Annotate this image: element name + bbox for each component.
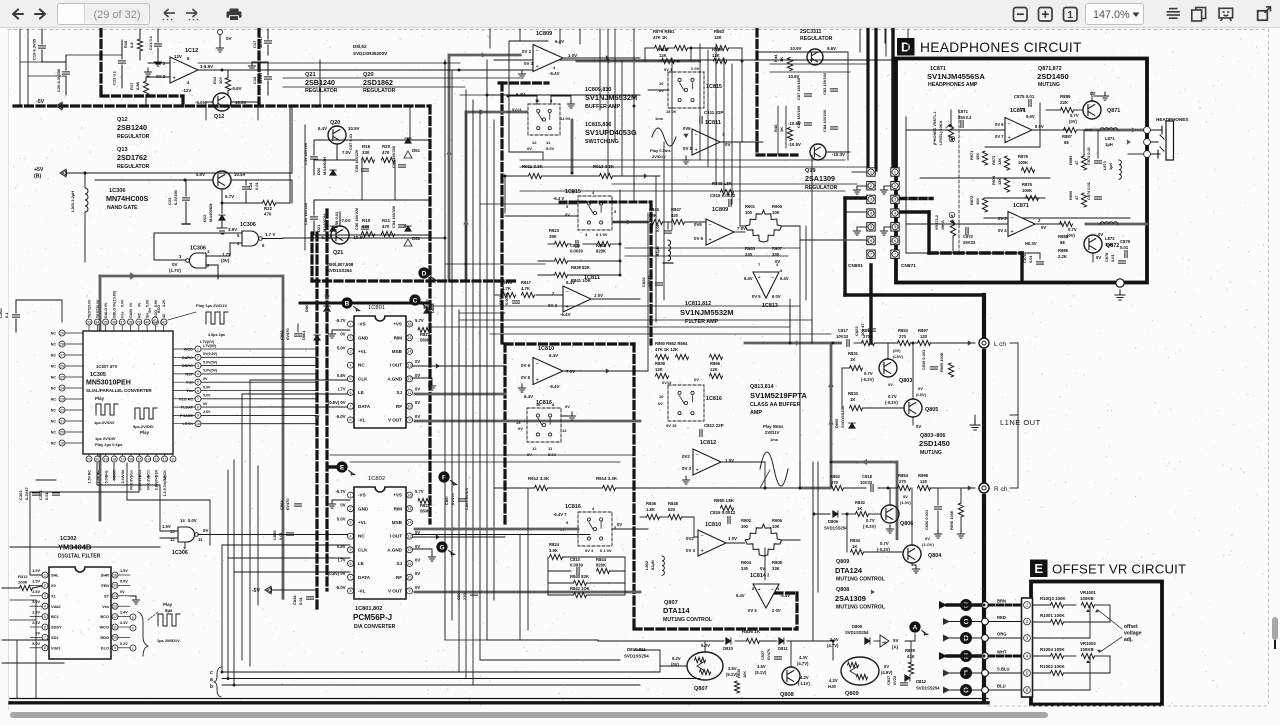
capacitor C817	[847, 340, 849, 347]
transistor Q805	[904, 399, 922, 417]
capacitor C818 value	[860, 480, 873, 485]
capacitor C87 label	[796, 77, 801, 100]
svg-text:10: 10	[659, 81, 664, 86]
svg-text:14: 14	[146, 457, 150, 461]
mesh r h2	[770, 71, 850, 73]
gate IC306c pin12	[170, 537, 175, 542]
wire y517c	[682, 517, 698, 537]
svg-text:68: 68	[1060, 240, 1065, 245]
resistor R917 label	[521, 280, 532, 285]
resistor R837	[662, 58, 675, 63]
wire cluster2 left2	[548, 570, 571, 572]
svg-text:SHL: SHL	[51, 573, 59, 578]
R859 R861 values	[653, 35, 667, 40]
IC305 play label	[95, 396, 105, 401]
svg-text:0V: 0V	[903, 494, 908, 499]
resistor R897 label	[918, 328, 929, 333]
offset wire label BLU	[997, 684, 1006, 689]
IC814 0V	[760, 566, 765, 571]
resistor R904 value	[741, 566, 749, 571]
svg-text:0V: 0V	[129, 302, 133, 307]
resistor R872	[982, 198, 987, 212]
svg-text:SJ: SJ	[396, 390, 402, 395]
svg-text:Play 2µs 0.6µs: Play 2µs 0.6µs	[95, 442, 123, 447]
mesh v g	[486, 60, 488, 640]
IC811b in3	[548, 303, 558, 308]
svg-text:2: 2	[1038, 218, 1041, 223]
resistor R866	[710, 373, 723, 378]
capacitor C802	[295, 324, 302, 336]
wire bridge2 out	[782, 539, 800, 541]
svg-text:1K: 1K	[857, 506, 862, 511]
mesh c v14	[663, 142, 665, 300]
capacitor C826 label	[641, 277, 646, 287]
arrow hatch A up	[446, 150, 452, 155]
gate IC306a label	[240, 222, 256, 228]
svg-text:-10.3V: -10.3V	[832, 152, 845, 157]
svg-text:15: 15	[113, 584, 117, 588]
resistor R20 value	[382, 150, 390, 155]
svg-text:2: 2	[197, 356, 199, 360]
diode D806	[833, 511, 838, 517]
transistor Q807 pair	[687, 652, 723, 680]
IC305 play per1	[94, 420, 115, 425]
svg-text:6 1 0V: 6 1 0V	[600, 548, 612, 553]
wire x292 up to -5V bus	[291, 106, 293, 173]
IC302 part line2	[58, 543, 92, 552]
op-amp IC809b	[706, 219, 734, 245]
svg-text:NC: NC	[51, 332, 57, 336]
zoom in	[1039, 8, 1053, 22]
resistor R911	[529, 173, 542, 178]
IC IC801 DAC body and pins	[348, 316, 413, 428]
svg-text:14: 14	[408, 521, 412, 525]
switch IC816c pin9	[566, 520, 569, 525]
svg-text:NC: NC	[51, 376, 57, 380]
svg-text:SVD1SS254: SVD1SS254	[840, 405, 845, 428]
svg-text:R853: R853	[898, 328, 909, 333]
svg-text:10V 47: 10V 47	[860, 323, 865, 336]
svg-text:Vss: Vss	[130, 470, 134, 476]
IC305 bottom pin row	[86, 454, 176, 462]
svg-text:6 1 0V: 6 1 0V	[596, 232, 608, 237]
svg-text:100: 100	[745, 210, 753, 215]
svg-text:(L0V): (L0V)	[916, 392, 927, 397]
gate IC306c pin13	[170, 529, 175, 534]
mesh h top1	[198, 69, 533, 71]
wire bridge2 vert	[764, 548, 766, 580]
svg-text:FEN: FEN	[101, 583, 109, 588]
Q13 part number line2	[117, 153, 147, 162]
switch IC815a pin13	[512, 107, 522, 112]
capacitor C801 label	[444, 497, 449, 505]
inductor L303	[85, 173, 88, 262]
dashed supply into x651	[560, 201, 651, 204]
capacitor C835 label	[272, 530, 277, 540]
Q805 v2	[916, 392, 927, 397]
capacitor C88 label	[796, 105, 801, 128]
svg-text:Play 1µs 2V/D1V: Play 1µs 2V/D1V	[196, 303, 227, 308]
wires IC305 to bus	[202, 349, 318, 424]
arrow hatch x831 up2	[828, 420, 834, 425]
capacitor C815 label	[710, 193, 736, 198]
svg-text:0V 15: 0V 15	[666, 423, 677, 428]
svg-text:(B): (B)	[34, 174, 41, 180]
svg-text:6.4V: 6.4V	[736, 593, 745, 598]
wire cluster y261L	[538, 260, 554, 262]
svg-text:SV1NJM4556SA: SV1NJM4556SA	[927, 72, 985, 81]
resistor R20	[382, 157, 395, 162]
IC305 right pin voltages	[203, 344, 218, 414]
svg-text:Q807: Q807	[694, 686, 708, 692]
switch IC815c box	[578, 196, 612, 230]
wire IC812 out	[721, 461, 765, 463]
svg-text:12K: 12K	[655, 367, 663, 372]
mesh c h9	[460, 312, 505, 314]
svg-text:0.7V: 0.7V	[1068, 227, 1077, 232]
diode D80x part2	[327, 268, 352, 273]
Q21 v left	[320, 235, 331, 240]
transistor Q803	[879, 359, 897, 377]
capacitor C56	[362, 227, 369, 229]
Q21 v right	[352, 235, 365, 240]
resistor R1004 label	[1040, 647, 1065, 652]
svg-text:0V: 0V	[1041, 225, 1046, 230]
svg-text:0V 5: 0V 5	[752, 294, 761, 299]
mesh right of IC802 b	[487, 640, 598, 641]
svg-text:1C305: 1C305	[90, 372, 106, 378]
svg-text:Play: Play	[140, 430, 150, 435]
svg-text:WCO: WCO	[184, 348, 193, 352]
svg-text:5.7V: 5.7V	[415, 318, 424, 323]
stub node F	[943, 670, 984, 677]
IC809810 title2	[585, 93, 637, 102]
svg-text:R898: R898	[918, 473, 929, 478]
svg-text:C302: C302	[0, 308, 3, 318]
capacitor C60	[311, 200, 318, 235]
resistor R852 value	[831, 480, 839, 485]
ground IC302 ST	[130, 596, 140, 604]
mesh right of IC802	[480, 659, 620, 661]
wire mute feed 1	[812, 462, 814, 488]
transistor Q803 designator	[899, 378, 912, 384]
switch IC815a v0	[527, 146, 532, 151]
svg-text:10.5V: 10.5V	[790, 46, 802, 51]
svg-text:L871: L871	[1105, 136, 1115, 141]
IC810a in6	[521, 363, 531, 368]
resistor R827 label	[420, 332, 431, 337]
IC813 in6	[772, 294, 781, 299]
resistor R16 label	[123, 40, 128, 48]
op-amp IC809b label	[712, 207, 728, 213]
IC871 title2	[927, 72, 985, 81]
wire bottom left long	[10, 665, 222, 667]
svg-text:0V: 0V	[415, 585, 420, 590]
svg-text:C57 0.01: C57 0.01	[348, 133, 353, 150]
svg-text:330: 330	[362, 150, 370, 155]
offset adj text3	[1124, 637, 1133, 643]
svg-text:REGULATOR: REGULATOR	[117, 134, 150, 140]
wire res vert x742	[741, 48, 743, 142]
svg-text:(4.9V): (4.9V)	[881, 670, 893, 675]
svg-text:Vss: Vss	[186, 389, 193, 393]
Q813814 title4	[750, 410, 762, 416]
svg-text:R903: R903	[745, 246, 756, 251]
junction dots cluster	[619, 243, 622, 277]
capacitor C874	[1095, 197, 1102, 199]
resistor R836 label	[742, 629, 761, 634]
svg-text:D80l,807,808: D80l,807,808	[327, 262, 354, 267]
svg-text:BC1: BC1	[51, 614, 60, 619]
wire cluster y275	[568, 274, 620, 276]
svg-text:11: 11	[546, 140, 551, 145]
resistor R853	[898, 340, 911, 345]
wire jack coil link	[1128, 153, 1143, 155]
capacitor C18 label	[252, 76, 257, 84]
wire Lch feed3	[875, 342, 898, 344]
svg-text:5µs.2V/DIV: 5µs.2V/DIV	[133, 424, 154, 429]
svg-text:SVD1SS254: SVD1SS254	[916, 686, 940, 691]
transistor Q13	[213, 171, 231, 189]
IC305 right pin names	[179, 348, 193, 427]
svg-text:C835: C835	[272, 530, 277, 540]
capacitor C819 label	[921, 349, 926, 370]
diode D805	[849, 423, 855, 428]
junction dot	[465, 263, 468, 266]
svg-text:820: 820	[668, 507, 676, 512]
svg-text:C873 0.01: C873 0.01	[1086, 146, 1091, 165]
svg-text:R18: R18	[362, 144, 371, 149]
capacitor C55	[362, 169, 369, 171]
svg-text:0.7V: 0.7V	[888, 394, 897, 399]
svg-text:(-L1V): (-L1V)	[798, 681, 810, 686]
bundle h LE802	[228, 557, 350, 559]
resistor R19 value	[362, 224, 370, 229]
resistor R824 label	[549, 542, 560, 547]
Q20 designator	[330, 120, 340, 126]
svg-text:0V 5: 0V 5	[683, 146, 693, 151]
gate IC306c out	[203, 528, 208, 533]
mesh c h3	[612, 183, 857, 185]
hp q871 coll	[1091, 92, 1093, 101]
Q803 vbe	[864, 371, 873, 376]
capacitor C810 label	[570, 557, 581, 562]
printer icon	[227, 9, 242, 21]
svg-text:11: 11	[408, 562, 412, 566]
Q806 vbe	[866, 518, 875, 523]
back arrow	[13, 9, 23, 18]
offset vert 1	[1089, 605, 1091, 638]
svg-text:R906: R906	[772, 518, 783, 523]
svg-text:R846: R846	[646, 501, 657, 506]
mesh top right2	[487, 94, 640, 96]
svg-text:24: 24	[60, 386, 64, 390]
svg-text:5.0V: 5.0V	[548, 452, 557, 457]
Q19 circuit part cut	[800, 29, 821, 35]
offset vert 3	[1089, 656, 1091, 690]
switch IC815b pin1	[664, 67, 673, 72]
svg-text:-10.5V: -10.5V	[352, 235, 365, 240]
svg-text:D20: D20	[316, 167, 321, 175]
svg-text:D: D	[901, 40, 910, 55]
svg-text:C809: C809	[570, 243, 581, 248]
capacitor C18	[265, 62, 272, 95]
transistor Q808	[782, 667, 800, 685]
svg-text:1ms: 1ms	[770, 437, 779, 442]
resistor R840 label	[570, 574, 589, 579]
svg-text:S.BLU: S.BLU	[997, 667, 1010, 672]
svg-text:0V: 0V	[918, 386, 923, 391]
svg-text:7: 7	[722, 132, 725, 137]
svg-text:6V22: 6V22	[892, 675, 897, 685]
svg-text:3.4V: 3.4V	[120, 621, 128, 625]
svg-text:R904: R904	[741, 560, 752, 565]
svg-text:D812: D812	[916, 679, 927, 684]
svg-text:6.8K: 6.8K	[135, 81, 140, 90]
resistor R847 value	[671, 213, 679, 218]
play annotation ic302c	[157, 638, 180, 643]
transistor Q872	[1084, 235, 1102, 253]
transistor Q20	[328, 126, 346, 144]
resistor R914	[603, 485, 616, 490]
mesh v d	[465, 90, 467, 580]
offset wire label BRN	[997, 599, 1006, 604]
svg-text:1K: 1K	[779, 127, 784, 132]
Q808 v5	[800, 675, 809, 680]
wire bridge2 feed	[744, 539, 746, 541]
play sine rc	[760, 452, 788, 486]
svg-text:E: E	[340, 464, 345, 471]
mesh h mid1	[445, 257, 545, 259]
svg-text:(-0.2V): (-0.2V)	[863, 524, 876, 529]
hatched phones L line	[1086, 129, 1144, 132]
hatched Rch feed	[800, 487, 830, 490]
op-amp IC812 label	[700, 440, 716, 446]
ground CN871 pin2	[880, 186, 890, 194]
resistor R865	[714, 58, 727, 63]
svg-text:C804: C804	[279, 500, 284, 510]
play waveform ic302	[158, 614, 180, 626]
svg-text:(-0.2V): (-0.2V)	[861, 377, 874, 382]
Q804 vbe2	[877, 547, 890, 552]
svg-text:6 0V: 6 0V	[772, 294, 781, 299]
hatched IC815c out	[613, 221, 648, 224]
svg-text:2.4V: 2.4V	[120, 611, 128, 615]
mesh top h3	[283, 77, 520, 79]
mesh left vert 1	[319, 60, 321, 106]
svg-text:0.01: 0.01	[278, 531, 283, 540]
svg-text:5V: 5V	[893, 638, 898, 643]
resistor R848 label	[668, 501, 679, 506]
wire x847 drop	[846, 514, 848, 552]
VR1001 label	[1080, 590, 1096, 595]
transistor Q809 designator	[845, 691, 859, 697]
resistor R1001 label	[1040, 613, 1065, 618]
resistor R861	[675, 45, 688, 50]
capacitor C804 label	[279, 500, 284, 510]
resistor R917 value	[521, 286, 530, 291]
gate IC306a pin6	[262, 243, 265, 248]
bus a label	[210, 677, 213, 683]
mesh c v3	[715, 44, 717, 184]
capacitor C874 label	[1086, 181, 1091, 200]
play note rc	[763, 424, 784, 429]
svg-text:1-5.6V: 1-5.6V	[200, 64, 213, 69]
resistor R873	[1004, 156, 1009, 170]
svg-text:C83 10V100: C83 10V100	[822, 72, 827, 95]
svg-text:Q808: Q808	[780, 692, 794, 698]
abc bus brace	[214, 667, 221, 697]
svg-text:SVD1SS254: SVD1SS254	[845, 630, 869, 635]
IC871b in3	[998, 216, 1007, 221]
wire Q20 emitter	[336, 144, 338, 160]
band h4	[490, 333, 831, 335]
wire cap joint	[42, 61, 66, 63]
svg-text:0.7V: 0.7V	[864, 371, 873, 376]
svg-text:GND: GND	[358, 506, 369, 511]
switch IC815b pin2	[691, 66, 700, 71]
resistor R16	[137, 29, 142, 60]
offset VR circuit enclosure box	[1031, 582, 1162, 705]
svg-text:(4.7V): (4.7V)	[797, 661, 809, 666]
capacitor C878 label	[1104, 252, 1109, 262]
svg-text:C303: C303	[18, 490, 23, 500]
svg-text:−: −	[1008, 121, 1011, 127]
svg-text:27: 27	[60, 353, 64, 357]
switch IC816c pin3	[585, 548, 594, 553]
switch IC815b label	[706, 84, 722, 90]
capacitor C819	[931, 367, 938, 369]
switch IC816c 0V	[560, 527, 565, 532]
svg-text:5.0V: 5.0V	[203, 394, 211, 398]
svg-text:D51: D51	[412, 148, 421, 153]
capacitor C871 value	[958, 115, 972, 120]
svg-text:12V: 12V	[174, 54, 182, 59]
svg-text:Vdd2: Vdd2	[51, 604, 61, 609]
capacitor C837	[901, 683, 908, 685]
svg-text:1.5V: 1.5V	[120, 569, 128, 573]
diode D811	[779, 638, 784, 644]
resistor R901 label	[745, 204, 756, 209]
junction dot node F	[982, 670, 989, 677]
inductor L871 value	[1105, 142, 1113, 147]
svg-text:6.4V: 6.4V	[318, 126, 327, 131]
capacitor C823 value	[860, 323, 865, 336]
svg-text:1K: 1K	[850, 357, 855, 362]
svg-text:0V 3: 0V 3	[548, 303, 558, 308]
offset connector pin 6	[1024, 687, 1031, 694]
actual size	[1064, 8, 1078, 22]
Q13 emitter voltage	[225, 194, 234, 199]
dashed regulator drop x430	[428, 106, 431, 523]
svg-text:PHASE: PHASE	[180, 414, 194, 418]
resistor R833	[850, 405, 863, 410]
IC811812 title1	[685, 301, 711, 307]
mesh c h6	[625, 247, 800, 249]
junction dot	[282, 105, 285, 108]
svg-text:7: 7	[44, 636, 46, 640]
resistor R841	[555, 272, 568, 277]
svg-text:0V: 0V	[527, 146, 532, 151]
Q804 v	[925, 536, 930, 541]
svg-text:0V: 0V	[565, 404, 570, 409]
svg-text:8: 8	[552, 402, 555, 407]
top stub 3	[559, 29, 561, 44]
resistor R852	[831, 485, 844, 490]
svg-text:2.8V(0V): 2.8V(0V)	[155, 475, 159, 490]
connector CN871 pins	[891, 168, 899, 259]
tl h1	[20, 61, 42, 63]
